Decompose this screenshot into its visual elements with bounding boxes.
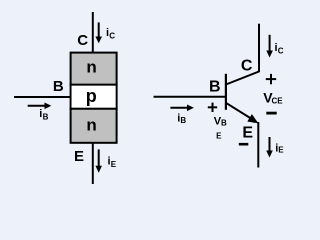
svg-text:B: B bbox=[209, 78, 221, 95]
wire: emitter lead vertical (right) bbox=[257, 122, 259, 168]
current arrow iC (left) bbox=[98, 22, 100, 37]
transistor Q1 npn stack body bbox=[71, 53, 117, 143]
wire: emitter diagonal with arrow bbox=[226, 103, 251, 119]
svg-text:C: C bbox=[109, 32, 115, 41]
current arrow iC (right) bbox=[269, 35, 271, 52]
minus sign VBE bbox=[239, 143, 249, 146]
p region white bbox=[72, 86, 116, 108]
svg-text:E: E bbox=[111, 160, 117, 169]
current arrow iE (left) bbox=[98, 149, 100, 166]
current arrow iE (right) bbox=[269, 137, 271, 152]
plus sign VCE bbox=[266, 78, 276, 80]
wire: n/p boundary line bbox=[70, 84, 118, 86]
svg-text:n: n bbox=[86, 116, 96, 135]
svg-text:C: C bbox=[278, 47, 284, 56]
wire: collector diagonal bbox=[226, 72, 259, 85]
wire: base lead (left diagram) bbox=[14, 96, 71, 98]
svg-text:C: C bbox=[77, 32, 88, 49]
svg-text:n: n bbox=[86, 58, 96, 77]
svg-text:CE: CE bbox=[272, 96, 284, 105]
svg-text:E: E bbox=[242, 125, 253, 142]
svg-text:E: E bbox=[216, 132, 222, 141]
wire: p/n boundary line bbox=[70, 108, 118, 110]
current arrow iB (right) bbox=[170, 107, 188, 109]
svg-text:E: E bbox=[74, 148, 84, 165]
wire: emitter lead bottom (left diagram) bbox=[92, 143, 94, 184]
wire: collector lead top (left diagram) bbox=[92, 12, 94, 53]
plus sign VBE bbox=[208, 106, 217, 108]
transistor Q2 base bar bbox=[225, 74, 227, 110]
svg-text:E: E bbox=[278, 145, 284, 154]
svg-text:B: B bbox=[221, 118, 227, 127]
current arrow iB (left) bbox=[28, 105, 46, 107]
wire: base lead (right diagram) bbox=[154, 96, 227, 98]
svg-text:B: B bbox=[53, 78, 64, 95]
svg-text:p: p bbox=[86, 86, 97, 106]
svg-text:C: C bbox=[241, 57, 253, 74]
minus sign VCE bbox=[266, 112, 276, 115]
svg-text:B: B bbox=[180, 116, 186, 125]
wire: collector lead vertical (right) bbox=[258, 24, 260, 72]
svg-text:B: B bbox=[43, 112, 49, 121]
